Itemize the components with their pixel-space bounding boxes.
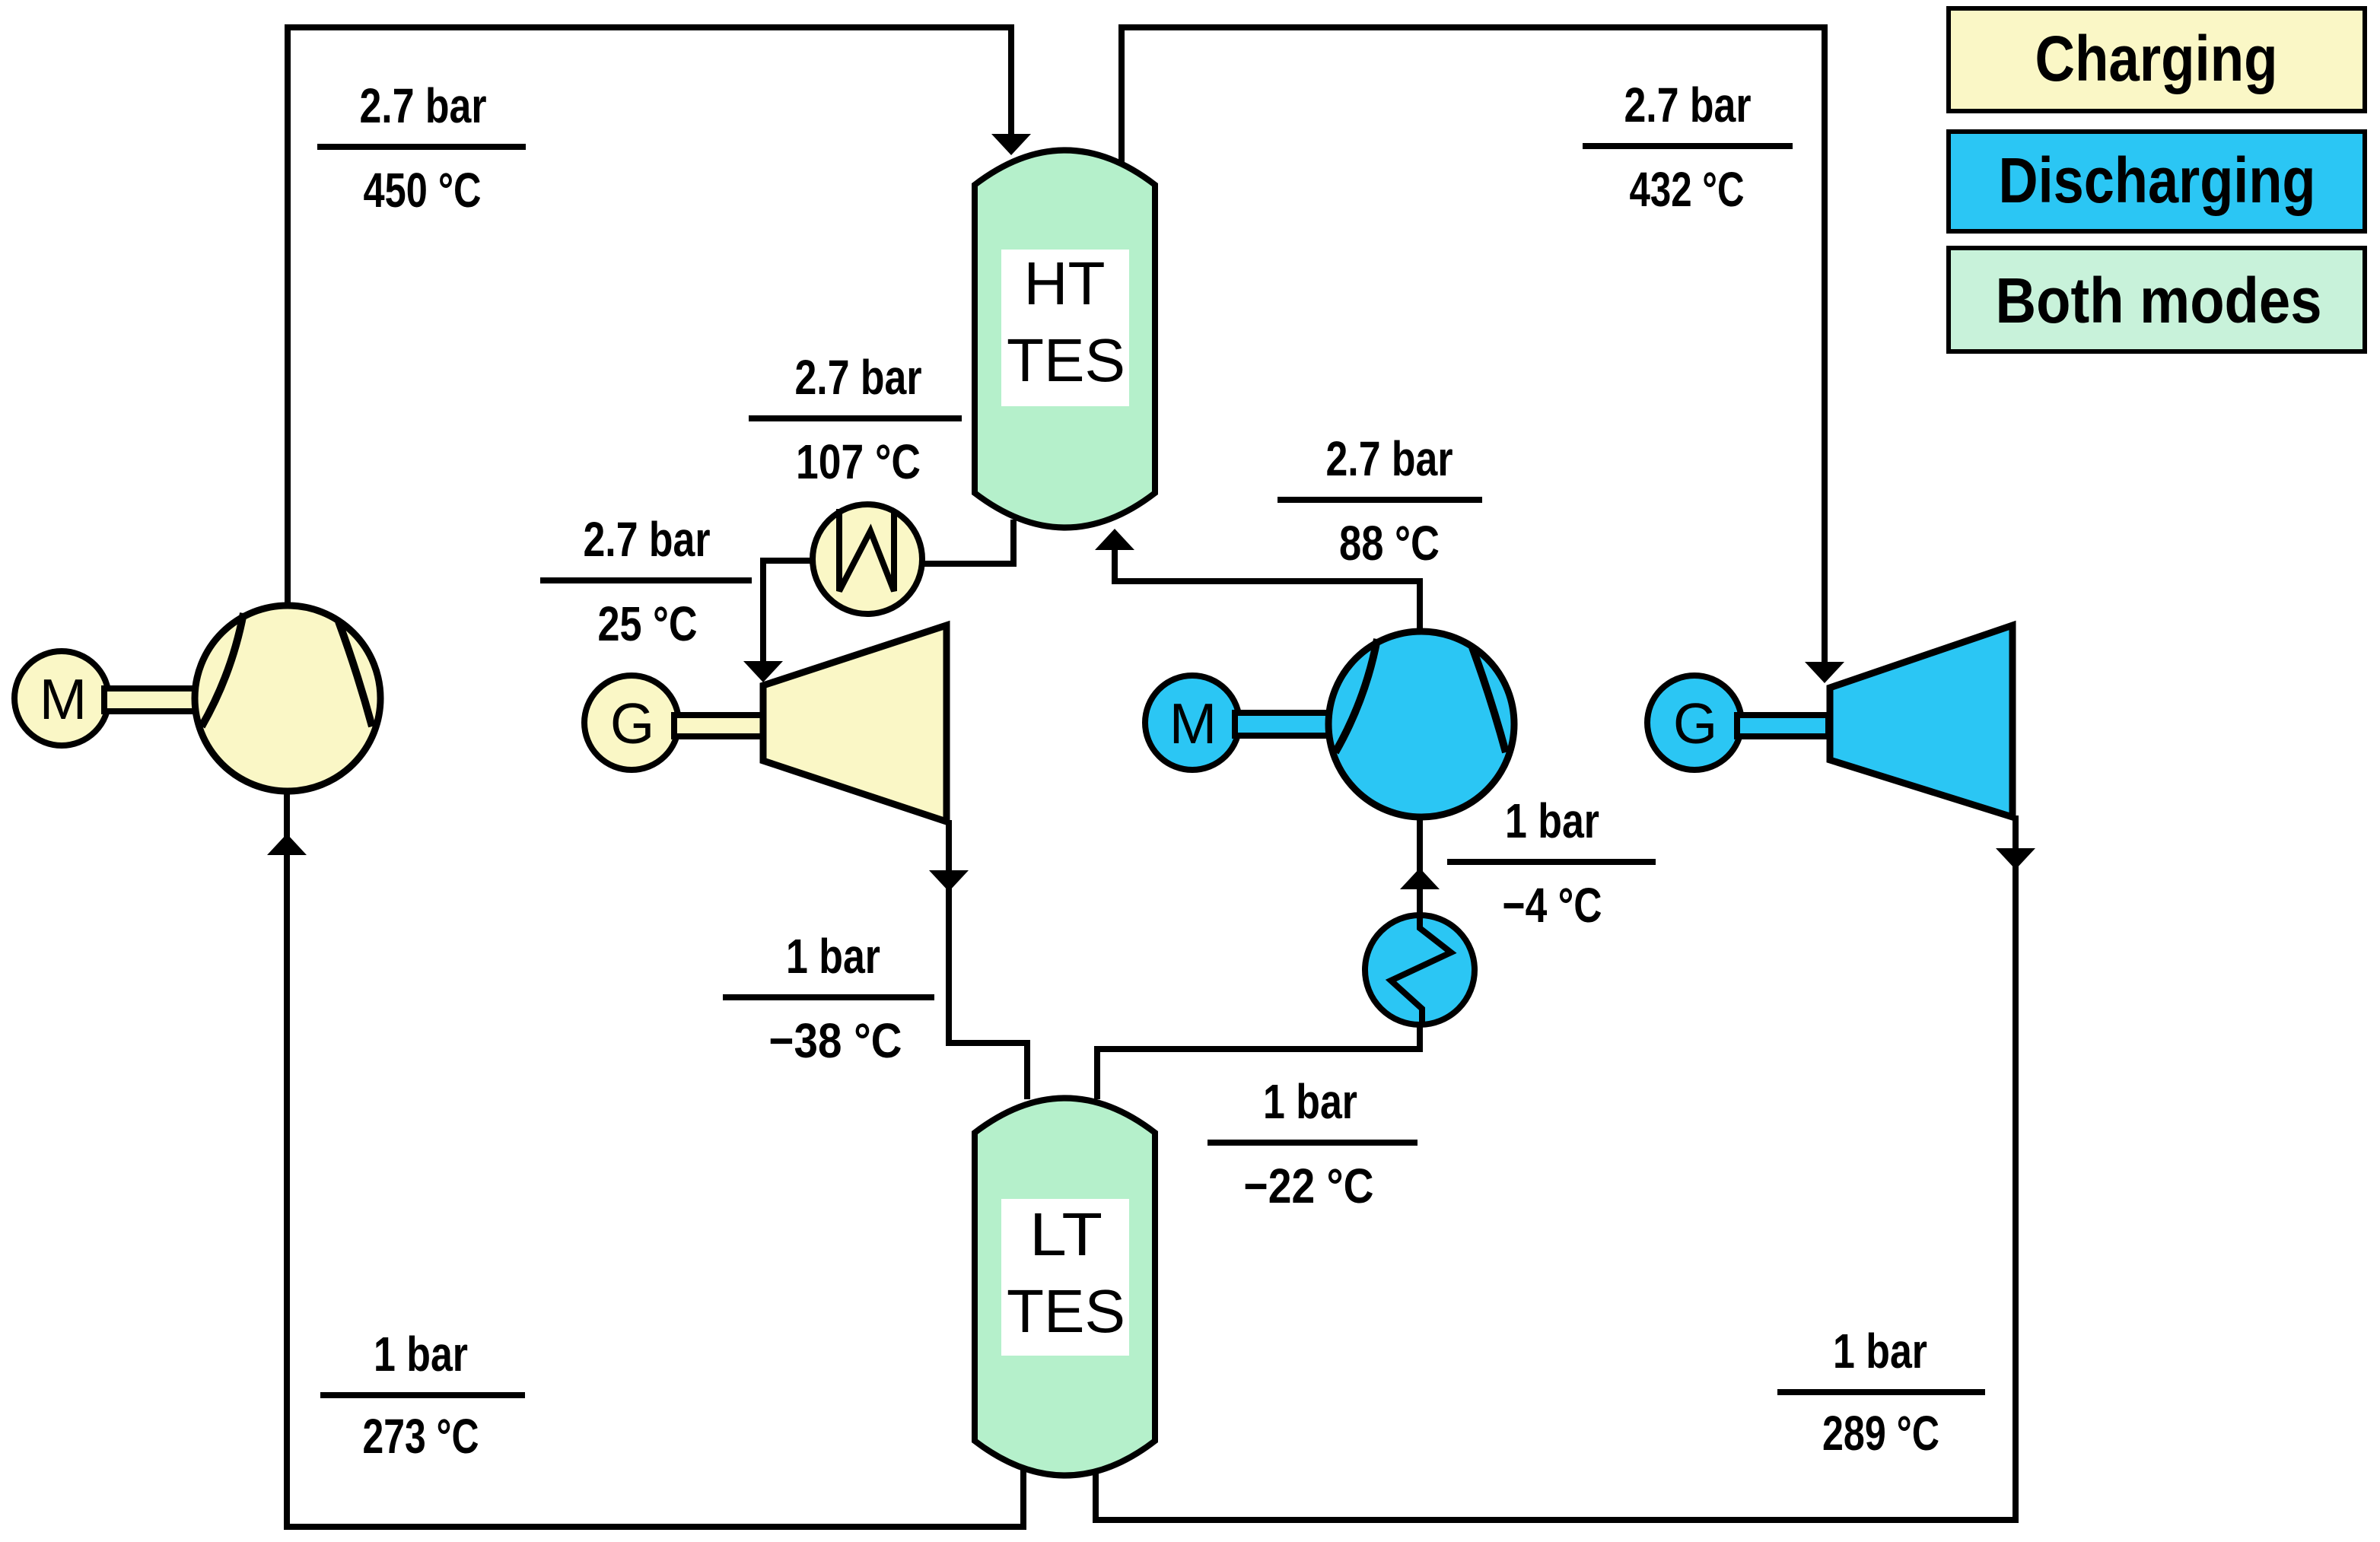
arrow up into left compressor [267, 834, 307, 855]
label 2.7 bar / 107 C [749, 350, 962, 489]
arrow yellow turbine outlet down [929, 870, 969, 892]
svg-text:Charging: Charging [2035, 23, 2278, 94]
svg-text:88 °C: 88 °C [1339, 516, 1440, 571]
wire charging: compressor top to HT TES top-left stub [288, 27, 1011, 606]
motor M2 [1145, 676, 1239, 770]
svg-text:−22 °C: −22 °C [1244, 1159, 1374, 1213]
tank LT TES [975, 1098, 1155, 1476]
heat exchanger HX2 (discharging, blue) [1365, 915, 1475, 1025]
heat exchanger HX1 (charging, yellow) [813, 504, 922, 614]
label 2.7 bar / 25 C [540, 512, 752, 651]
legend Discharging [1949, 132, 2365, 231]
label 1 bar / 289 C [1777, 1324, 1985, 1461]
motor M1 [14, 651, 109, 746]
svg-text:2.7 bar: 2.7 bar [1326, 431, 1453, 486]
turbine T1 (charging) [763, 625, 947, 822]
turbine T2 (discharging) [1830, 625, 2013, 817]
wire blue turbine outlet along bottom to LT TES bottom-right stub [1096, 816, 2016, 1520]
svg-text:G: G [1673, 692, 1717, 755]
compressor C2 (discharging) [1328, 631, 1514, 817]
svg-text:M: M [1169, 692, 1217, 755]
label 1 bar / -4 C [1447, 793, 1656, 933]
wire HT TES top-right stub to blue turbine inlet [1122, 27, 1825, 665]
label 2.7 bar / 432 C [1583, 78, 1793, 217]
svg-text:273 °C: 273 °C [363, 1409, 479, 1464]
compressor C1 (charging) [195, 606, 380, 791]
shaft G2-turbine [1737, 715, 1828, 736]
label 2.7 bar / 450 C [317, 78, 526, 218]
svg-text:2.7 bar: 2.7 bar [360, 78, 487, 133]
svg-text:1 bar: 1 bar [786, 929, 880, 984]
svg-text:2.7 bar: 2.7 bar [1624, 78, 1752, 132]
svg-text:−4 °C: −4 °C [1503, 878, 1602, 933]
wire yellow turbine outlet to LT TES top-left stub [949, 820, 1027, 1099]
svg-text:TES: TES [1007, 1277, 1125, 1345]
svg-text:LT: LT [1029, 1200, 1102, 1268]
arrow into yellow turbine inlet [743, 661, 783, 682]
svg-text:2.7 bar: 2.7 bar [584, 512, 711, 567]
svg-text:1 bar: 1 bar [1505, 793, 1599, 848]
wire HX1 to yellow turbine inlet [763, 561, 813, 665]
svg-text:25 °C: 25 °C [598, 596, 698, 651]
wire HX2 top to blue compressor bottom [1417, 819, 1423, 915]
svg-text:1 bar: 1 bar [1833, 1324, 1927, 1378]
svg-text:HT: HT [1024, 250, 1106, 317]
arrow into HT TES top [991, 134, 1031, 155]
arrow blue turbine outlet down [1996, 848, 2035, 870]
svg-text:Discharging: Discharging [1999, 145, 2316, 216]
svg-text:432 °C: 432 °C [1630, 162, 1745, 217]
arrow up into blue compressor [1400, 868, 1440, 889]
svg-text:G: G [610, 692, 654, 755]
svg-text:−38 °C: −38 °C [769, 1013, 902, 1068]
svg-text:289 °C: 289 °C [1822, 1406, 1939, 1461]
label 2.7 bar / 88 C [1277, 431, 1482, 571]
shaft M1-compressor [104, 688, 199, 711]
generator G1 [584, 676, 679, 770]
wire LT TES top-right stub to blue heat exchanger HX2 [1097, 1025, 1420, 1099]
svg-text:107 °C: 107 °C [796, 434, 921, 489]
svg-text:1 bar: 1 bar [374, 1327, 468, 1381]
svg-text:450 °C: 450 °C [364, 163, 482, 218]
tank HT TES [975, 151, 1155, 528]
svg-text:M: M [40, 667, 87, 731]
svg-text:1 bar: 1 bar [1263, 1074, 1357, 1129]
shaft G1-turbine [674, 715, 765, 736]
wire blue compressor top to HT TES bottom-right stub [1115, 533, 1420, 631]
label 1 bar / -22 C [1207, 1074, 1417, 1213]
svg-text:2.7 bar: 2.7 bar [795, 350, 922, 405]
shaft M2-compressor [1235, 713, 1330, 736]
arrow into blue turbine inlet [1805, 662, 1844, 683]
generator G2 [1647, 676, 1742, 770]
svg-text:TES: TES [1007, 326, 1125, 394]
label 1 bar / -38 C [723, 929, 934, 1068]
wire HT TES bottom-left stub to heat exchanger HX1 [922, 520, 1013, 564]
arrow up into HT TES bottom-right stub [1095, 529, 1134, 550]
legend Both modes [1949, 248, 2365, 351]
wire LT TES bottom-left stub along bottom up to compressor [287, 794, 1023, 1527]
svg-text:Both modes: Both modes [1996, 265, 2322, 336]
label 1 bar / 273 C [320, 1327, 525, 1464]
legend Charging [1949, 8, 2365, 111]
